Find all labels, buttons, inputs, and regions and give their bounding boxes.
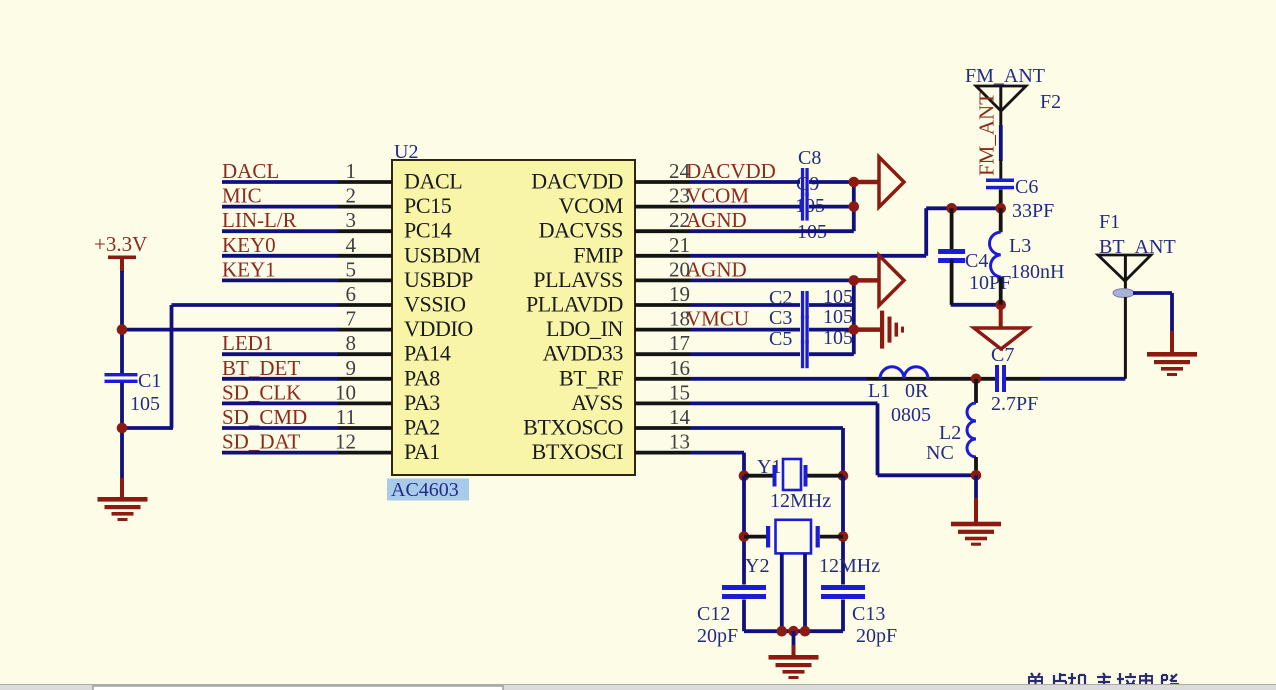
svg-text:C8: C8 [798, 147, 821, 169]
svg-text:AC4603: AC4603 [391, 479, 459, 501]
svg-text:20pF: 20pF [697, 625, 738, 647]
svg-text:DACL: DACL [222, 159, 279, 183]
wire AGND pin22 [690, 207, 854, 232]
inductor L1 [866, 367, 995, 426]
capacitor C5 [769, 327, 853, 368]
title text (Chinese) [1027, 673, 1178, 690]
ground crystal [769, 631, 819, 679]
net label MIC [222, 184, 262, 208]
antenna F1 BT_ANT [1098, 211, 1176, 290]
svg-text:FM_ANT: FM_ANT [975, 92, 999, 176]
wire AVSS pin15 [690, 403, 976, 475]
svg-text:105: 105 [823, 306, 853, 328]
svg-text:C4: C4 [965, 250, 988, 272]
junction node row20 [849, 275, 860, 286]
svg-text:VDDIO: VDDIO [404, 316, 473, 341]
U2 left pin names [404, 169, 480, 465]
svg-text:DACVSS: DACVSS [539, 218, 623, 243]
svg-text:C5: C5 [769, 328, 792, 350]
wire FMIP pin21 [690, 208, 952, 256]
capacitor C4 [938, 208, 1011, 304]
designator C9 [796, 173, 819, 195]
capacitor C12 [697, 585, 766, 647]
capacitor C1 [105, 370, 162, 415]
net label AGND pin 20 [686, 257, 747, 281]
svg-text:+3.3V: +3.3V [94, 232, 147, 256]
svg-text:BTXOSCI: BTXOSCI [532, 439, 623, 464]
svg-text:C6: C6 [1015, 176, 1038, 198]
svg-text:PC14: PC14 [404, 218, 452, 243]
net label KEY1 [222, 257, 276, 281]
svg-text:PA8: PA8 [404, 365, 440, 390]
wire left xtal rail [742, 476, 746, 632]
svg-text:PA3: PA3 [404, 390, 440, 415]
wire BT_RF pin16 [690, 377, 866, 381]
svg-text:LED1: LED1 [222, 331, 273, 355]
svg-text:DACVDD: DACVDD [531, 169, 623, 194]
svg-text:PA1: PA1 [404, 439, 440, 464]
svg-text:FMIP: FMIP [573, 242, 623, 267]
svg-text:PA14: PA14 [404, 341, 451, 366]
net label SD_CLK [222, 380, 301, 404]
junction node row24 [849, 177, 860, 188]
svg-text:BT_RF: BT_RF [559, 365, 623, 390]
junction nodes xtal bottom [777, 626, 811, 637]
svg-text:USBDM: USBDM [404, 242, 480, 267]
net label LED1 [222, 331, 273, 355]
capacitor C13 [821, 585, 897, 647]
capacitor C8 (row24) [801, 168, 809, 196]
junction node L2 bottom [971, 470, 982, 481]
svg-text:VMCU: VMCU [686, 307, 749, 331]
svg-text:12MHz: 12MHz [819, 555, 880, 577]
svg-text:L2: L2 [939, 422, 961, 444]
wire BTXOSCO pin14 [690, 428, 843, 476]
wire pin 5 [222, 278, 338, 282]
svg-text:0R: 0R [905, 380, 929, 402]
wire pin 10 [222, 401, 338, 405]
svg-text:13: 13 [669, 430, 690, 454]
net label LIN-L/R [222, 208, 297, 232]
svg-text:C3: C3 [769, 307, 792, 329]
junction node Y2 right [838, 531, 849, 542]
wire +3.3V rail [120, 271, 124, 374]
chip U2 body [392, 160, 635, 475]
svg-text:10: 10 [335, 380, 356, 404]
svg-text:180nH: 180nH [1010, 261, 1064, 283]
wire pin 3 [222, 229, 338, 233]
svg-text:VCOM: VCOM [559, 193, 623, 218]
wire pin 7 VDDIO [122, 328, 338, 332]
svg-text:8: 8 [346, 331, 357, 355]
svg-text:19: 19 [669, 282, 690, 306]
svg-text:17: 17 [669, 331, 690, 355]
svg-text:15: 15 [669, 380, 690, 404]
svg-text:VSSIO: VSSIO [404, 292, 466, 317]
svg-text:C2: C2 [769, 287, 792, 309]
junction node C4 top [946, 203, 957, 214]
wire pin 2 [222, 205, 338, 209]
wire BT gnd branch [1133, 293, 1172, 352]
svg-text:L3: L3 [1009, 235, 1031, 257]
svg-text:MIC: MIC [222, 184, 262, 208]
crystal Y1 [744, 456, 843, 512]
antenna feed ellipse [1113, 289, 1134, 298]
capacitor C7 [991, 344, 1040, 415]
power arrow row20 [854, 255, 904, 305]
svg-text:16: 16 [669, 356, 690, 380]
designator C8 [798, 147, 821, 169]
inductor L2 [926, 379, 976, 476]
svg-text:11: 11 [336, 405, 356, 429]
svg-text:DACL: DACL [404, 169, 462, 194]
wire pin 4 [222, 254, 338, 258]
svg-text:9: 9 [346, 356, 357, 380]
svg-text:BT_DET: BT_DET [222, 356, 300, 380]
wire FM node bottom [951, 303, 1001, 307]
junction node gnd-left [117, 423, 128, 434]
net label DACVDD pin 24 [686, 159, 776, 183]
ground left [98, 478, 148, 521]
wire AVDD33 pin17 [690, 330, 854, 355]
wire VMCU pin18 [690, 305, 854, 330]
svg-text:Y2: Y2 [745, 555, 769, 577]
wire VCOM pin23 [690, 182, 854, 207]
junction node row23 [849, 201, 860, 212]
svg-text:PLLAVSS: PLLAVSS [533, 267, 623, 292]
svg-text:NC: NC [926, 442, 954, 464]
ground (rotated) row18 [854, 311, 904, 349]
wire BTXOSCI pin13 [690, 453, 744, 476]
net label FM_ANT (vertical) [975, 92, 999, 176]
svg-text:1: 1 [346, 159, 357, 183]
net label AGND pin 22 [686, 208, 747, 232]
wire right xtal rail [841, 476, 845, 632]
svg-text:C1: C1 [138, 370, 161, 392]
junction node Y2 left [739, 531, 750, 542]
wire DACVDD pin24 [690, 180, 854, 184]
svg-text:SD_DAT: SD_DAT [222, 430, 300, 454]
wire FM node top [952, 206, 1001, 210]
U2 right pin stubs 24-13 [635, 182, 690, 453]
svg-text:USBDP: USBDP [404, 267, 473, 292]
wire BT antenna stem [1124, 297, 1127, 379]
svg-text:VCOM: VCOM [686, 184, 749, 208]
junction node Y1 left [739, 470, 750, 481]
antenna F2 FM_ANT [965, 65, 1061, 126]
svg-text:FM_ANT: FM_ANT [965, 65, 1045, 87]
svg-text:14: 14 [669, 405, 691, 429]
wire pin 12 [222, 451, 338, 455]
wire xtal bottom rail [744, 629, 843, 633]
svg-text:2.7PF: 2.7PF [991, 393, 1038, 415]
junction node RF [971, 374, 982, 385]
svg-text:7: 7 [346, 307, 357, 331]
U2 left pin stubs 1-12 [337, 182, 392, 453]
svg-text:AGND: AGND [686, 257, 747, 281]
junction node VDD [117, 324, 128, 335]
inductor L3 [990, 208, 1065, 304]
svg-text:2: 2 [346, 184, 357, 208]
wire pin 9 [222, 377, 338, 381]
svg-text:LDO_IN: LDO_IN [546, 316, 624, 341]
capacitor C9 (row23) [801, 193, 809, 221]
svg-text:105: 105 [823, 286, 853, 308]
svg-text:C12: C12 [697, 603, 730, 625]
wire AGND pin20 [690, 278, 854, 282]
net label VMCU pin 18 [686, 307, 749, 331]
part type AC4603 (selected) [387, 479, 469, 502]
ground triangle below L3 [974, 305, 1028, 349]
net label BT_DET [222, 356, 300, 380]
svg-text:21: 21 [669, 233, 690, 257]
wire pin 8 [222, 352, 338, 356]
capacitor C6 [986, 160, 1054, 222]
wire C1 to gnd node [120, 383, 124, 481]
svg-text:U2: U2 [394, 141, 418, 163]
value 105 (C9) [797, 221, 827, 243]
svg-text:PLLAVDD: PLLAVDD [526, 292, 623, 317]
U2 left pin numbers 1-12 [335, 159, 357, 454]
wire pin 11 [222, 426, 338, 430]
svg-text:KEY0: KEY0 [222, 233, 276, 257]
bottom ui bar [0, 684, 1276, 690]
net label SD_CMD [222, 405, 307, 429]
svg-text:20pF: 20pF [856, 625, 897, 647]
svg-text:33PF: 33PF [1012, 200, 1054, 222]
U2 right pin numbers 24-13 [669, 159, 691, 454]
svg-text:F1: F1 [1099, 211, 1120, 233]
ground BT antenna [1147, 352, 1197, 376]
svg-text:12: 12 [335, 430, 356, 454]
wire C7 to BT antenna [1040, 377, 1125, 381]
svg-text:AVSS: AVSS [571, 390, 623, 415]
wire FM antenna stem [999, 125, 1003, 161]
capacitor C2 [769, 286, 853, 319]
svg-text:12MHz: 12MHz [770, 490, 831, 512]
net label KEY0 [222, 233, 276, 257]
power +3.3V [94, 232, 147, 272]
svg-text:105: 105 [823, 327, 853, 349]
svg-text:BTXOSCO: BTXOSCO [523, 415, 623, 440]
wire pin 1 [222, 180, 338, 184]
capacitor C3 [769, 306, 853, 344]
U2 right pin names [523, 169, 623, 465]
svg-text:6: 6 [346, 282, 357, 306]
svg-text:SD_CMD: SD_CMD [222, 405, 307, 429]
svg-text:C13: C13 [852, 603, 885, 625]
svg-text:LIN-L/R: LIN-L/R [222, 208, 297, 232]
svg-text:AVDD33: AVDD33 [543, 341, 624, 366]
svg-text:10PF: 10PF [969, 272, 1011, 294]
net label DACL [222, 159, 279, 183]
svg-text:SD_CLK: SD_CLK [222, 380, 301, 404]
wire pin 6 VSSIO [122, 305, 338, 428]
svg-text:KEY1: KEY1 [222, 257, 276, 281]
power arrow VDD row24 [854, 157, 904, 207]
svg-text:3: 3 [346, 208, 357, 232]
net label VCOM pin 23 [686, 184, 749, 208]
svg-text:PC15: PC15 [404, 193, 452, 218]
svg-text:5: 5 [346, 257, 357, 281]
junction node L3 top [995, 203, 1006, 214]
svg-text:4: 4 [346, 233, 357, 257]
svg-text:L1: L1 [868, 380, 890, 402]
svg-text:F2: F2 [1040, 91, 1061, 113]
net label SD_DAT [222, 430, 300, 454]
value 105 (C8) [795, 195, 825, 217]
ground below L2 [951, 475, 1001, 545]
designator U2 [394, 141, 418, 163]
crystal Y2 [744, 520, 880, 631]
svg-text:105: 105 [130, 393, 160, 415]
svg-text:PA2: PA2 [404, 415, 440, 440]
svg-text:DACVDD: DACVDD [686, 159, 776, 183]
svg-text:0805: 0805 [891, 404, 931, 426]
junction node L3 bottom [995, 300, 1006, 311]
junction node row18 [849, 324, 860, 335]
wire PLLAVDD pin19 [690, 280, 854, 305]
svg-text:AGND: AGND [686, 208, 747, 232]
junction node Y1 right [838, 470, 849, 481]
